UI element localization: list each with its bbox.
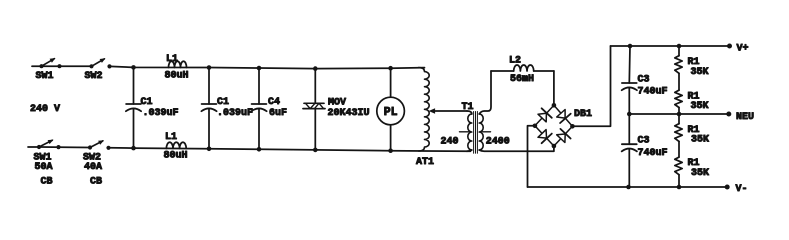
wire DB1 plus to V+ rail xyxy=(572,46,610,126)
label R1 35K (c) xyxy=(688,125,710,146)
svg-text:35K: 35K xyxy=(691,101,709,112)
svg-text:240: 240 xyxy=(441,137,459,148)
label 240 + pointer xyxy=(441,132,469,148)
wire R1c-R1d xyxy=(678,141,680,157)
wire SW1 to SW2 (bottom) xyxy=(41,146,91,149)
resistor R1 (a) xyxy=(675,56,682,74)
wire L2 right xyxy=(534,70,554,72)
svg-text:SW1: SW1 xyxy=(36,71,54,82)
arrow wiper xyxy=(429,108,436,113)
svg-text:35K: 35K xyxy=(691,168,709,179)
svg-text:AT1: AT1 xyxy=(416,157,434,168)
node DB1 right xyxy=(570,124,575,129)
svg-text:C1: C1 xyxy=(141,97,153,108)
svg-text:80uH: 80uH xyxy=(164,150,188,161)
svg-text:56mH: 56mH xyxy=(510,74,534,85)
wire NEU to R1c xyxy=(678,114,680,124)
label L1 80uH (top) xyxy=(165,54,189,81)
svg-text:CB: CB xyxy=(41,176,53,187)
wire L2 to bridge top xyxy=(553,71,555,105)
svg-text:80uH: 80uH xyxy=(165,71,189,82)
label AT1 xyxy=(416,157,434,168)
wire C3 lower to V- xyxy=(628,149,630,187)
svg-text:NEU: NEU xyxy=(736,112,754,123)
wire R1a-R1b xyxy=(678,73,680,90)
capacitor C1 (first) xyxy=(126,65,141,150)
label C3 740uF (lower) xyxy=(638,136,668,159)
wire T1 secondary top xyxy=(479,71,491,114)
label PL xyxy=(384,106,398,119)
wire R1d to V- xyxy=(678,175,680,187)
wire SW2 to T1 (bottom rail) xyxy=(109,148,471,151)
node C3 bottom xyxy=(626,185,631,190)
svg-text:L1: L1 xyxy=(166,54,178,65)
wire V+ rail xyxy=(611,45,730,47)
svg-text:40A: 40A xyxy=(84,162,102,173)
switch SW2 (bottom line) xyxy=(88,140,111,150)
svg-text:.039uF: .039uF xyxy=(217,108,253,119)
varistor MOV xyxy=(303,66,325,152)
winding T1 secondary xyxy=(479,114,483,150)
wire V+ to C3 xyxy=(628,46,631,83)
label C1 .039uF xyxy=(141,97,179,119)
label 2400 + pointer xyxy=(483,132,510,148)
wire DB1 minus to V- rail xyxy=(528,126,535,187)
resistor R1 (d) xyxy=(675,157,682,175)
wire SW1 to SW2 (top) xyxy=(43,65,92,67)
winding T1 primary xyxy=(468,114,472,150)
svg-text:V+: V+ xyxy=(737,44,749,55)
svg-text:CB: CB xyxy=(90,176,102,187)
wire L2 left xyxy=(491,70,514,72)
svg-text:L1: L1 xyxy=(165,132,177,143)
svg-text:2400: 2400 xyxy=(486,137,510,148)
node DB1 left xyxy=(533,124,538,129)
capacitor C1 (second) xyxy=(201,65,216,151)
svg-text:DB1: DB1 xyxy=(574,109,592,120)
wire AC line stub bottom xyxy=(28,146,39,148)
svg-text:C3: C3 xyxy=(638,74,650,85)
label C1 .039uF (second) xyxy=(217,97,253,119)
label R1 35K (b) xyxy=(688,91,709,112)
svg-text:T1: T1 xyxy=(462,102,474,113)
node R1 bottom xyxy=(677,185,682,190)
label SW2 40A CB xyxy=(83,152,102,187)
switch SW1 (top line) xyxy=(39,58,61,68)
terminal NEU xyxy=(726,112,754,124)
wire V+ to R1a xyxy=(678,46,680,56)
wire T1 secondary bottom xyxy=(479,146,554,151)
wire V- rail xyxy=(528,186,728,188)
svg-text:V-: V- xyxy=(736,184,748,195)
wire SW2 to node (top) xyxy=(110,66,425,68)
svg-text:L2: L2 xyxy=(509,56,521,67)
svg-text:6uF: 6uF xyxy=(269,108,287,119)
resistor R1 (b) xyxy=(675,90,682,107)
svg-text:.039uF: .039uF xyxy=(143,108,179,119)
diode DB1 left-top xyxy=(535,105,554,126)
label DB1 xyxy=(574,109,592,120)
svg-text:50A: 50A xyxy=(35,162,53,173)
switch SW2 (top line) xyxy=(89,58,111,68)
label R1 35K (d) xyxy=(688,158,710,179)
label C3 740uF (upper) xyxy=(638,74,668,97)
inductor L2 xyxy=(514,65,534,71)
node R1 top xyxy=(677,44,682,49)
wire NEU to C3 lower xyxy=(628,114,630,144)
svg-text:PL: PL xyxy=(384,106,398,119)
label T1 xyxy=(462,102,474,113)
label MOV 20K43IU xyxy=(328,98,370,119)
svg-text:740uF: 740uF xyxy=(638,148,668,159)
label SW1 50A CB xyxy=(34,152,53,187)
svg-text:35K: 35K xyxy=(691,135,709,146)
inductor L1 (top) xyxy=(169,61,187,67)
capacitor C3 (upper) xyxy=(622,83,637,90)
node C3 top xyxy=(628,44,633,49)
wire NEU rail xyxy=(629,113,729,115)
switch SW1 (bottom line) xyxy=(37,140,61,150)
svg-text:C3: C3 xyxy=(638,136,650,147)
diode DB1 left-bottom xyxy=(535,126,554,146)
node DB1 bottom xyxy=(552,144,557,149)
lamp PL xyxy=(377,66,405,153)
wire R1b to NEU xyxy=(678,108,680,115)
label R1 35K (a) xyxy=(688,57,709,78)
capacitor C3 (lower) xyxy=(622,144,637,151)
label L2 56mH xyxy=(509,56,534,85)
terminal V+ xyxy=(727,44,749,55)
svg-text:240 V: 240 V xyxy=(30,104,60,115)
wire C3 to NEU xyxy=(628,88,630,114)
terminal V- xyxy=(725,184,748,195)
svg-text:C4: C4 xyxy=(268,97,280,108)
diode DB1 top-right xyxy=(554,105,573,126)
core T1 xyxy=(474,112,478,154)
inductor L1 (bottom) xyxy=(166,142,186,148)
autotransformer AT1 xyxy=(419,68,430,151)
label L1 80uH (bottom) xyxy=(164,132,188,161)
label C4 6uF xyxy=(268,97,287,119)
node NEU left xyxy=(627,112,632,117)
svg-text:35K: 35K xyxy=(691,67,709,78)
node R1 mid xyxy=(677,112,682,117)
wire wiper T1 primary top xyxy=(434,111,472,114)
svg-text:20K43IU: 20K43IU xyxy=(328,108,370,119)
capacitor C4 xyxy=(251,66,266,152)
wire T1 primary bottom xyxy=(467,150,472,151)
diode DB1 bottom-right xyxy=(554,126,573,146)
node DB1 top xyxy=(552,103,557,108)
wire AC line stub top xyxy=(32,65,42,67)
svg-text:SW2: SW2 xyxy=(85,71,103,82)
label SW2 xyxy=(85,71,103,82)
label SW1 xyxy=(36,71,54,82)
svg-text:740uF: 740uF xyxy=(638,87,668,98)
svg-text:C1: C1 xyxy=(217,97,229,108)
label 240 V source xyxy=(30,104,60,115)
resistor R1 (c) xyxy=(675,124,682,142)
